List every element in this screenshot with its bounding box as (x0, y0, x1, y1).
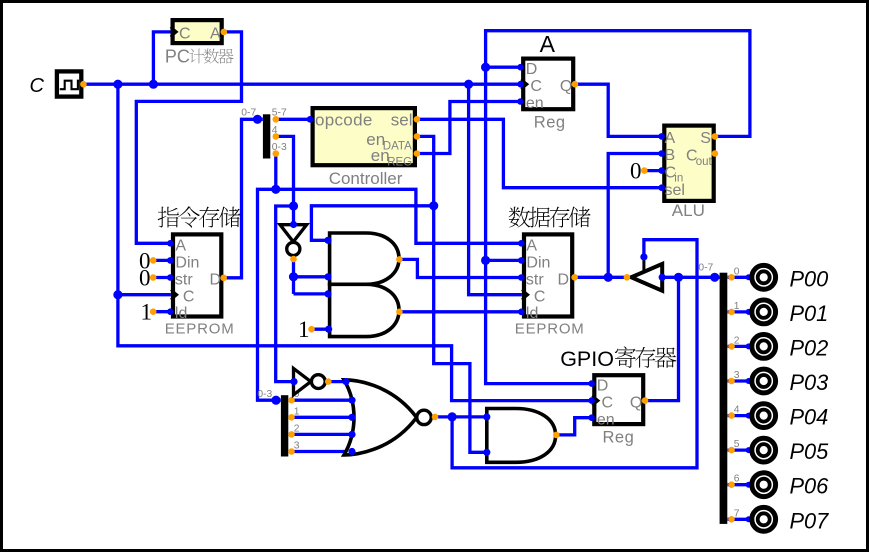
wire port splitter bit6 to output P06 (728, 483, 750, 486)
svg-text:P03: P03 (790, 370, 829, 395)
svg-text:0-7: 0-7 (241, 108, 256, 119)
svg-text:D: D (526, 61, 538, 78)
junction clock at instruction C (113, 290, 122, 299)
wire NOR output to AND gate G3 input (435, 415, 487, 418)
svg-text:en: en (526, 95, 544, 112)
wire port splitter bit7 to output P07 (728, 518, 750, 521)
svg-text:ALU: ALU (672, 201, 705, 220)
splitter 3 (output bus to ports P00-P07) (698, 262, 751, 524)
ALU block (658, 126, 718, 220)
svg-text:D: D (597, 378, 609, 395)
svg-text:Q: Q (560, 78, 572, 95)
svg-text:C: C (530, 78, 542, 95)
svg-text:1: 1 (298, 317, 310, 342)
svg-text:Din: Din (175, 254, 199, 271)
svg-text:D: D (558, 272, 570, 289)
output port P05 (752, 438, 829, 464)
output port P06 (752, 473, 829, 499)
svg-text:EEPROM: EEPROM (165, 320, 235, 337)
junction S-bus to data Din (481, 256, 490, 265)
svg-text:0: 0 (630, 159, 642, 184)
wire PC counter A output to instruction EEPROM A (136, 32, 241, 243)
svg-text:4: 4 (734, 405, 740, 416)
svg-text:P04: P04 (790, 405, 829, 430)
wire GPIO Q up to data bus (645, 277, 678, 400)
svg-text:0-7: 0-7 (698, 262, 713, 273)
svg-text:A: A (526, 237, 537, 254)
svg-text:P00: P00 (790, 266, 829, 291)
wire port splitter bit4 to output P04 (728, 414, 750, 417)
splitter 2 (operand bits 0-3 fanout) (257, 389, 299, 456)
svg-text:opcode: opcode (315, 111, 373, 130)
wire constant 0 to instruction EEPROM str (153, 276, 171, 279)
svg-text:7: 7 (734, 508, 740, 519)
wire Controller sel output to ALU sel (417, 119, 662, 187)
wire clock output to A-Reg C input (83, 83, 521, 86)
junction bit4 branch (289, 201, 298, 210)
wire splitter bits 0-3 down to junction (274, 154, 277, 190)
junction at splitter 1 input (253, 115, 262, 124)
svg-text:2: 2 (294, 423, 300, 434)
output port P02 (752, 335, 828, 361)
wire lower splitter bit0 to NOR (292, 399, 353, 402)
wire splitter bit4 down to inverter U1 (276, 136, 294, 224)
wire 0-3 branch to lower splitter input (258, 189, 281, 400)
svg-text:PC: PC (165, 46, 190, 66)
svg-text:sel: sel (665, 182, 685, 199)
wire bit4 branch west down to inverter U2 input (276, 206, 294, 382)
svg-text:3: 3 (294, 441, 300, 452)
svg-text:B: B (665, 147, 676, 164)
svg-text:REG: REG (387, 156, 412, 168)
wire constant 1 to AND G2 input (312, 328, 329, 331)
wire port splitter bit3 to output P03 (728, 379, 750, 382)
wire port splitter bit2 to output P02 (728, 345, 750, 348)
svg-text:Din: Din (526, 254, 550, 271)
wire AND G1 output to data EEPROM str (399, 259, 522, 277)
svg-text:2: 2 (734, 335, 740, 346)
junction clock/PC branch (149, 80, 158, 89)
junction NOR output branch (448, 412, 457, 421)
svg-text:0-3: 0-3 (272, 142, 287, 153)
svg-text:C: C (183, 289, 195, 306)
wire inverter U1 output down (292, 259, 295, 294)
wire inverted bit4 to AND G2 input (294, 292, 329, 295)
svg-text:4: 4 (272, 125, 278, 136)
output port P00 (752, 265, 828, 291)
svg-text:Controller: Controller (329, 169, 403, 188)
wire constant 1 to instruction EEPROM ld (153, 310, 171, 313)
svg-text:C: C (602, 394, 614, 411)
svg-text:1: 1 (294, 406, 300, 417)
svg-text:str: str (175, 272, 193, 289)
wire lower splitter bit1 to NOR (292, 416, 353, 419)
wire en_DATA branch west to AND G1 input (311, 206, 433, 241)
svg-text:0: 0 (734, 266, 740, 277)
junction en_DATA branch (429, 201, 438, 210)
tri-state buffer (pointing left) (624, 253, 666, 290)
svg-text:out: out (696, 156, 713, 168)
svg-text:1: 1 (734, 301, 740, 312)
svg-text:GPIO: GPIO (560, 347, 614, 371)
wire clock branch down to data EEPROM C (469, 84, 522, 295)
junction clock/data-EEPROM branch (464, 80, 473, 89)
wire instruction EEPROM D output up to splitter input (224, 119, 263, 277)
inverter U1 (NOT gate, pointing down) (280, 221, 307, 263)
AND gate G3 (483, 409, 559, 463)
wire AND G3 output to GPIO en (556, 418, 592, 435)
clock input C (30, 71, 87, 97)
wire inverted bit4 to AND G1 input (294, 275, 329, 278)
svg-text:C: C (30, 75, 45, 97)
wire S-bus stub to data EEPROM Din (486, 259, 522, 262)
svg-text:P07: P07 (790, 508, 830, 533)
wire inverter U2 output to NOR input (328, 380, 346, 383)
svg-text:en: en (597, 411, 615, 428)
data EEPROM (数据存储) (509, 207, 591, 338)
Controller block (307, 108, 421, 188)
junction inverted bit4 branch (289, 272, 298, 281)
svg-text:A: A (210, 26, 221, 43)
wire lower splitter bit2 to NOR (292, 433, 353, 436)
junction data bus to ALU B (604, 273, 613, 282)
svg-text:A: A (175, 237, 186, 254)
wire port splitter bit5 to output P05 (728, 448, 750, 451)
junction at port splitter input (710, 273, 719, 282)
svg-text:Q: Q (630, 394, 642, 411)
AND gate G2 (324, 284, 402, 336)
wire constant 0 to instruction EEPROM Din (153, 259, 171, 262)
wire clock branch up to PC counter C (153, 32, 170, 84)
output port P03 (752, 369, 828, 395)
wire 0-3 branch east to data EEPROM A (276, 189, 522, 243)
svg-text:3: 3 (734, 370, 740, 381)
wire S-bus stub to A-Reg D (486, 66, 521, 69)
junction data bus to GPIO Q (674, 273, 683, 282)
wire data EEPROM D output to tri-state output node (574, 276, 631, 279)
svg-text:P02: P02 (790, 335, 829, 360)
svg-text:6: 6 (734, 474, 740, 485)
output port P04 (752, 404, 828, 430)
svg-text:EEPROM: EEPROM (515, 320, 585, 337)
svg-text:D: D (210, 272, 222, 289)
svg-text:5-7: 5-7 (272, 108, 287, 119)
svg-text:P06: P06 (790, 474, 830, 499)
svg-text:Reg: Reg (534, 114, 566, 132)
svg-text:0: 0 (139, 266, 151, 291)
wire ALU S output loop over the top to S-bus (486, 31, 750, 384)
svg-text:P01: P01 (790, 301, 829, 326)
GPIO register (GPIO寄存器) Reg (560, 346, 676, 446)
svg-text:sel: sel (391, 111, 413, 130)
wire tri-state enable loop from NOR junction (452, 240, 697, 468)
svg-text:C: C (179, 26, 191, 43)
wire clock branch down to instruction EEPROM C and long bottom run to GPIO C (118, 84, 592, 400)
AND gate G1 (324, 233, 402, 284)
junction S-bus to A-Reg D (481, 63, 490, 72)
wire Controller en_DATA output down to AND G3 (417, 136, 487, 452)
wire AND G2 output to data EEPROM ld (399, 310, 522, 313)
wire Controller en_REG output to A-Reg en (417, 102, 521, 154)
output port P01 (752, 300, 828, 326)
svg-text:S: S (700, 130, 711, 147)
svg-text:str: str (526, 272, 544, 289)
wire splitter bits 5-7 to Controller opcode (276, 118, 311, 121)
svg-text:5: 5 (734, 439, 740, 450)
wire port splitter bit1 to output P01 (728, 310, 750, 313)
wire port splitter bit0 to output P00 (728, 276, 750, 279)
svg-text:A: A (665, 130, 676, 147)
junction clock/instruction branch (113, 80, 122, 89)
output port P07 (752, 507, 829, 533)
inverter U2 (NOT gate, pointing right) (290, 368, 331, 394)
splitter 1 (instruction word to 5-7 / 4 / 0-3) (241, 108, 287, 159)
junction lower splitter input (271, 396, 280, 405)
wire data bus up to ALU B (608, 154, 662, 278)
NOR gate (5-input) (342, 378, 438, 455)
wire A-Reg Q to ALU A (575, 84, 663, 136)
junction 0-3 branch (271, 185, 280, 194)
svg-text:C: C (534, 289, 546, 306)
svg-text:P05: P05 (790, 439, 830, 464)
register A (Reg) (517, 31, 578, 132)
instruction EEPROM (指令存储) (158, 206, 241, 337)
wire lower splitter bit3 to NOR (292, 450, 353, 453)
svg-text:0-3: 0-3 (257, 389, 272, 400)
svg-text:A: A (540, 31, 556, 57)
svg-text:Reg: Reg (603, 429, 635, 447)
PC counter register (PC计数器) (165, 20, 234, 66)
wire clock stub into instruction EEPROM C (118, 293, 171, 296)
wire tri-state input to port splitter (662, 276, 719, 279)
wire constant 0 to ALU Cin (644, 169, 662, 172)
